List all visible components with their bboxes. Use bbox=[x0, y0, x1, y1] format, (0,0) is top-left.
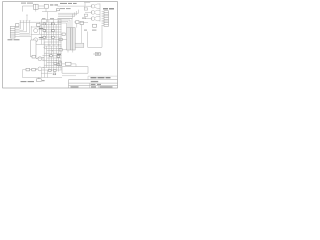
label bbox=[82, 18, 86, 19]
connector label bbox=[8, 39, 20, 40]
wire bbox=[47, 12, 49, 23]
label Q4 bbox=[39, 28, 44, 29]
wire bbox=[23, 70, 63, 78]
mesh B horizontal wires bbox=[42, 46, 61, 70]
capacitor C11 bbox=[37, 23, 41, 26]
inductor L1 body bbox=[75, 43, 84, 47]
resistor R20 bbox=[84, 8, 87, 10]
transistor Q4 bbox=[34, 29, 38, 33]
title block line 4 bbox=[69, 85, 118, 87]
resistor R15 bbox=[65, 62, 71, 65]
diode D10 bbox=[44, 4, 48, 8]
sheet text bbox=[71, 86, 113, 87]
label bbox=[57, 54, 61, 55]
resistor R5 bbox=[54, 63, 57, 65]
transformer T2 bbox=[34, 4, 39, 9]
wire drop from above bbox=[26, 15, 27, 21]
wire bus bbox=[20, 21, 48, 23]
mesh A vertical wires bbox=[39, 20, 61, 48]
transistor Q5 bbox=[34, 38, 38, 42]
wire bbox=[62, 75, 76, 77]
mesh A horizontal wires bbox=[32, 20, 62, 45]
transformer T1 core bbox=[71, 28, 73, 50]
diode D1 bbox=[43, 23, 46, 25]
diode D6 bbox=[80, 22, 84, 25]
net label bbox=[84, 30, 96, 31]
transistor Q6 bbox=[36, 57, 44, 61]
mesh B vertical wires bbox=[44, 42, 61, 72]
resistor R6 bbox=[57, 56, 60, 58]
wire bbox=[99, 4, 101, 22]
title block line 2 bbox=[69, 80, 118, 88]
resistor R21 bbox=[84, 14, 87, 16]
capacitor C7 bbox=[37, 78, 42, 82]
resistor R11 bbox=[32, 68, 36, 71]
capacitor C9 bbox=[16, 24, 20, 27]
connector label ATX conn bbox=[103, 8, 114, 9]
transformer T3 body bbox=[31, 40, 36, 57]
wire bbox=[80, 22, 88, 24]
power flag PWR1 bbox=[93, 52, 101, 55]
ground label text bbox=[21, 81, 35, 82]
connector J2 bbox=[104, 11, 109, 26]
capacitor C3 bbox=[50, 55, 53, 57]
wire fanout to connector bbox=[20, 22, 32, 36]
diode D5 bbox=[76, 21, 80, 24]
label Q5 bbox=[39, 37, 44, 38]
transistor Q3 bbox=[85, 16, 100, 20]
title block top line bbox=[88, 76, 118, 80]
resistor R7 bbox=[57, 64, 60, 66]
size label text bbox=[91, 84, 101, 85]
diode D2 bbox=[52, 23, 55, 25]
label bbox=[42, 80, 45, 81]
capacitor C1 bbox=[43, 36, 46, 38]
junction dots bbox=[44, 47, 57, 61]
diode D3 bbox=[43, 30, 46, 32]
title block divider bbox=[90, 83, 98, 88]
diode D4 bbox=[52, 30, 55, 32]
resistor R18 bbox=[62, 33, 65, 35]
wire nested corners lower bbox=[57, 19, 72, 28]
capacitor C2 bbox=[52, 36, 55, 38]
transformer T1 pins bbox=[68, 50, 73, 53]
kicad version text bbox=[91, 81, 98, 82]
capacitor C5 bbox=[53, 70, 56, 72]
wire loop rectangle bbox=[62, 67, 88, 74]
wire bbox=[62, 49, 66, 51]
resistor R16 bbox=[59, 38, 62, 40]
wire stubs above bus bbox=[20, 21, 31, 22]
wire bbox=[36, 57, 44, 59]
diode D8 bbox=[53, 73, 56, 75]
label +5V standby text bbox=[21, 3, 33, 4]
net label row 2 bbox=[60, 8, 71, 9]
connector J2 pins bbox=[102, 12, 104, 26]
voltage regulator U2 bbox=[59, 61, 62, 66]
wire bbox=[88, 26, 102, 48]
wire bbox=[84, 3, 90, 7]
title text ATX Power Supply bbox=[91, 77, 111, 78]
wire bbox=[30, 26, 32, 40]
transistor Q1 bbox=[85, 4, 100, 8]
title block line 3 bbox=[69, 82, 118, 84]
wire bbox=[62, 64, 76, 67]
capacitor C10 bbox=[57, 9, 60, 11]
resistor R17 bbox=[59, 49, 62, 51]
capacitor C8 bbox=[32, 55, 36, 58]
value label bbox=[50, 4, 58, 5]
wire bbox=[74, 22, 82, 43]
net label row 1 bbox=[60, 3, 77, 4]
transistor Q7 bbox=[36, 67, 44, 71]
sheet border frame bbox=[3, 2, 118, 88]
connector J1 pins bbox=[15, 27, 20, 36]
net label bbox=[42, 18, 54, 19]
transformer T1 body bbox=[67, 28, 76, 50]
resistor R12 bbox=[48, 70, 51, 72]
resistor R10 bbox=[26, 68, 30, 71]
resistor R22 bbox=[93, 24, 97, 27]
wire bbox=[58, 6, 85, 8]
wire bbox=[22, 6, 44, 12]
connector J1 bbox=[10, 27, 15, 39]
wire nested corners upper bbox=[58, 10, 79, 19]
wire bbox=[62, 38, 66, 40]
wire bbox=[36, 9, 57, 12]
transistor Q2 bbox=[85, 10, 100, 14]
wire bbox=[23, 69, 38, 71]
